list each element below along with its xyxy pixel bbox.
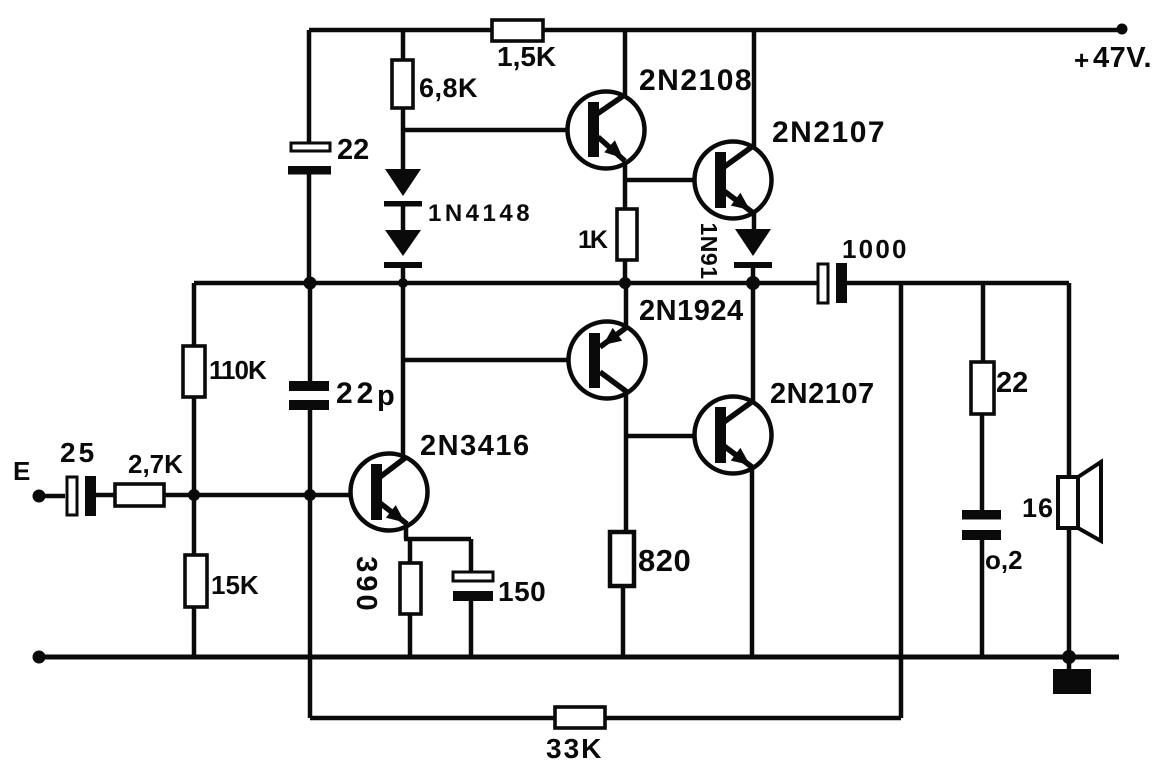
svg-text:110K: 110K [209,355,267,385]
svg-text:E: E [13,456,30,486]
svg-text:390: 390 [350,556,382,613]
svg-text:25: 25 [60,437,97,468]
svg-text:2,7K: 2,7K [128,449,183,479]
svg-text:2N3416: 2N3416 [420,430,531,462]
svg-text:15K: 15K [211,570,259,600]
svg-text:1000: 1000 [842,234,909,264]
svg-text:+: + [1074,45,1089,75]
svg-text:33K: 33K [546,733,603,761]
svg-text:2N2107: 2N2107 [772,116,886,149]
svg-text:2N2108: 2N2108 [639,64,753,97]
svg-text:47V.: 47V. [1093,42,1152,74]
svg-text:1,5K: 1,5K [497,41,556,72]
svg-text:o,2: o,2 [985,545,1023,575]
svg-text:1N91: 1N91 [696,223,722,280]
svg-text:16: 16 [1022,493,1054,523]
svg-text:22: 22 [337,134,369,166]
svg-text:p: p [377,380,395,412]
svg-text:820: 820 [638,543,691,578]
svg-text:1K: 1K [578,226,608,254]
svg-text:2N1924: 2N1924 [639,295,744,327]
svg-text:1N4148: 1N4148 [428,200,533,227]
svg-text:2N2107: 2N2107 [770,378,875,410]
svg-text:150: 150 [498,576,546,607]
svg-text:22: 22 [996,367,1028,399]
svg-text:6,8K: 6,8K [419,73,478,103]
svg-text:22: 22 [336,377,377,410]
